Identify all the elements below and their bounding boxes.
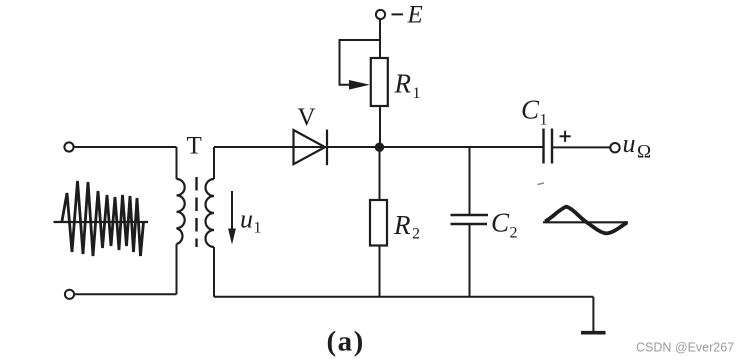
wire C2 bottom lead xyxy=(469,224,471,297)
svg-text:T: T xyxy=(187,132,202,159)
wire node down to R2 xyxy=(379,147,381,200)
transformer primary winding xyxy=(177,179,185,244)
svg-text:C: C xyxy=(491,208,510,238)
svg-text:u: u xyxy=(240,205,253,234)
AM modulated input waveform xyxy=(54,181,149,256)
stray scan mark xyxy=(538,183,545,185)
svg-text:2: 2 xyxy=(412,226,420,243)
svg-text:V: V xyxy=(298,104,316,131)
wire secondary top lead xyxy=(213,147,215,179)
wire C1 to output terminal xyxy=(552,146,610,148)
plus sign of C1 xyxy=(560,131,571,142)
svg-text:Ω: Ω xyxy=(637,142,651,163)
resistor R1 xyxy=(371,58,388,106)
wire down to ground xyxy=(592,297,594,332)
svg-text:CSDN @Ever267: CSDN @Ever267 xyxy=(636,341,734,355)
svg-text:1: 1 xyxy=(254,220,262,237)
wire R2 bottom to bottom rail xyxy=(379,246,381,297)
label -E xyxy=(392,13,404,15)
bottom rail xyxy=(214,296,593,298)
svg-text:R: R xyxy=(394,69,412,99)
node junction dot xyxy=(375,143,384,152)
supply terminal -E xyxy=(376,10,385,19)
wire C2 branch top lead xyxy=(469,147,471,215)
transformer core xyxy=(195,177,197,247)
wire primary top lead xyxy=(176,147,178,179)
svg-text:1: 1 xyxy=(540,112,548,129)
wire top-left input to transformer primary xyxy=(74,146,177,148)
wire -E terminal to R1 xyxy=(379,19,381,58)
svg-text:R: R xyxy=(393,210,411,240)
wire primary bottom lead xyxy=(176,244,178,294)
svg-text:C: C xyxy=(521,95,540,125)
transformer secondary winding xyxy=(206,179,215,247)
svg-text:1: 1 xyxy=(413,85,421,102)
capacitor C1 xyxy=(544,129,553,164)
diode V xyxy=(294,130,328,166)
output sine wave symbol xyxy=(543,207,628,234)
ground xyxy=(581,331,606,335)
output terminal xyxy=(610,143,619,152)
input terminal top xyxy=(64,142,73,151)
wire secondary bottom lead xyxy=(213,247,215,297)
wire R1 bottom to node xyxy=(379,106,381,147)
resistor R2 xyxy=(370,200,387,246)
rheostat bracket and wiper arrow on R1 xyxy=(340,40,381,90)
svg-text:2: 2 xyxy=(510,225,518,242)
input terminal bottom xyxy=(65,290,74,299)
svg-text:E: E xyxy=(407,1,423,28)
u1 arrow xyxy=(228,191,236,245)
wire bottom-left input to transformer primary xyxy=(74,293,176,295)
svg-text:u: u xyxy=(623,129,636,158)
capacitor C2 xyxy=(451,215,489,224)
wire secondary to diode and on to C1 xyxy=(214,146,544,148)
svg-text:(a): (a) xyxy=(327,326,365,358)
